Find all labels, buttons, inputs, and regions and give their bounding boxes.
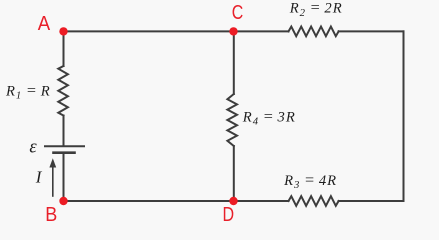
wire R3 to D <box>234 200 289 202</box>
current arrow I : shaft <box>52 165 54 196</box>
wire right rail <box>403 31 405 201</box>
wire R4 to D <box>233 146 235 201</box>
svg-text:R2 = 2R: R2 = 2R <box>289 0 343 19</box>
wire R1 to battery <box>63 116 65 146</box>
current arrow I : head <box>49 158 56 167</box>
svg-text:R4 = 3R: R4 = 3R <box>242 107 296 127</box>
wire R2 to top-right corner <box>339 30 404 32</box>
wire C to R4 <box>233 31 235 94</box>
svg-text:ε: ε <box>29 138 37 158</box>
svg-text:B: B <box>45 204 57 226</box>
node B <box>59 197 67 205</box>
resistor R2 <box>289 27 339 37</box>
wire A to C (top left) <box>64 30 234 32</box>
resistor R4 <box>227 94 237 146</box>
wire battery to B <box>63 154 65 201</box>
battery epsilon : long plate <box>45 145 84 147</box>
resistor R1 <box>58 66 68 116</box>
wire C to R2 <box>234 30 289 32</box>
svg-text:A: A <box>38 13 51 35</box>
svg-text:C: C <box>232 2 244 24</box>
node C <box>229 27 237 35</box>
resistor R3 <box>289 196 339 206</box>
battery epsilon : short plate <box>54 151 75 154</box>
wire D to B (bottom left) <box>64 200 234 202</box>
node A <box>59 27 67 35</box>
svg-text:D: D <box>223 204 235 226</box>
svg-text:R3 = 4R: R3 = 4R <box>283 171 337 191</box>
svg-text:R1 = R: R1 = R <box>5 81 51 101</box>
wire bottom-right corner to R3 <box>339 200 404 202</box>
node D <box>229 197 237 205</box>
wire A to R1 <box>63 31 65 66</box>
